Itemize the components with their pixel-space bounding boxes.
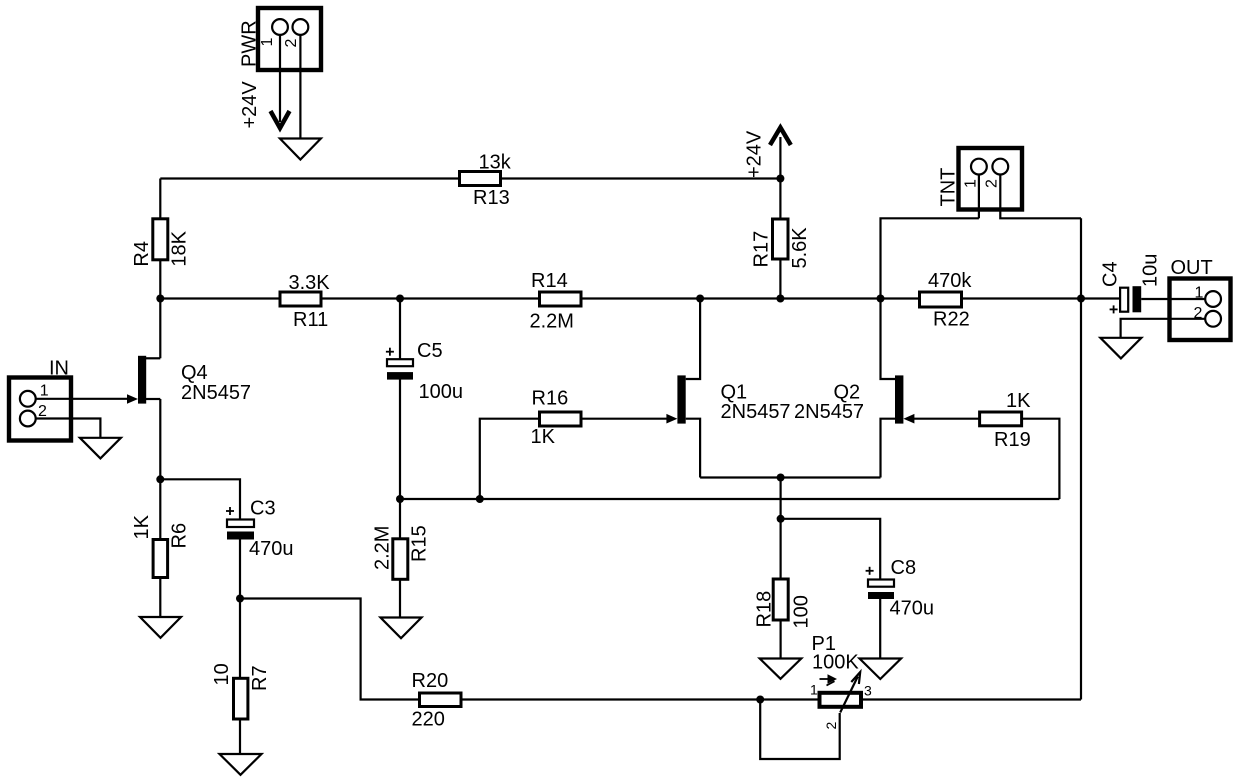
svg-text:2: 2 xyxy=(1194,305,1203,322)
svg-text:R18: R18 xyxy=(754,591,776,628)
wire main bus xyxy=(160,297,1120,299)
node C4 left junction xyxy=(1077,295,1085,303)
wire PWR pin1 xyxy=(279,35,281,122)
wire lower node to R20 xyxy=(240,599,420,700)
node R4 bottom junction xyxy=(156,295,164,303)
connector PWR xyxy=(239,8,322,70)
wire top 13k rail xyxy=(160,177,780,179)
wire +24V arrow to R17 column xyxy=(779,137,781,299)
svg-text:220: 220 xyxy=(412,709,445,731)
svg-text:R6: R6 xyxy=(169,523,191,549)
svg-text:470k: 470k xyxy=(928,270,972,292)
wire TNT pin2 to right rail xyxy=(1000,175,1081,219)
svg-text:470u: 470u xyxy=(890,598,935,620)
wire R19 right leg to feedback xyxy=(1022,419,1060,499)
wire R15 down to ground xyxy=(399,499,401,618)
wire Q2 source xyxy=(881,419,896,478)
wire R4 column vertical xyxy=(159,179,161,359)
svg-text:R4: R4 xyxy=(131,241,153,267)
node C3 bottom junction xyxy=(236,595,244,603)
resistor R16 1K xyxy=(531,388,582,449)
node P1 pin1 junction xyxy=(756,696,764,704)
svg-text:5.6K: 5.6K xyxy=(789,227,811,269)
node 13k/+24V junction xyxy=(776,175,784,183)
svg-text:100: 100 xyxy=(791,595,813,628)
svg-text:2: 2 xyxy=(38,403,47,420)
transistor Q1 2N5457 xyxy=(666,375,790,423)
wire PWR pin2 xyxy=(299,35,301,139)
svg-text:1: 1 xyxy=(259,38,276,47)
svg-text:2N5457: 2N5457 xyxy=(721,401,791,423)
connector IN xyxy=(9,357,71,440)
capacitor C3 470u xyxy=(226,498,294,561)
connector OUT xyxy=(1170,257,1231,340)
label +24V at PWR xyxy=(239,81,261,129)
svg-text:+24V: +24V xyxy=(744,130,766,178)
svg-text:Q4: Q4 xyxy=(181,362,208,384)
wire P1 right to output rail xyxy=(861,698,1081,700)
svg-text:1K: 1K xyxy=(1006,390,1031,412)
node Q1 drain junction xyxy=(696,295,704,303)
wire R16 to Q1 gate xyxy=(581,418,669,420)
svg-text:OUT: OUT xyxy=(1171,257,1213,279)
node C5 bottom junction xyxy=(396,495,404,503)
resistor R22 470k xyxy=(920,270,973,331)
svg-text:2.2M: 2.2M xyxy=(530,311,574,333)
svg-text:+24V: +24V xyxy=(239,81,261,129)
wire IN pin2 to ground xyxy=(36,419,101,438)
wire R20 to P1 xyxy=(461,698,820,700)
capacitor C8 470u xyxy=(866,557,934,620)
svg-text:1: 1 xyxy=(963,179,980,188)
wire C5 branch down xyxy=(399,299,401,360)
wire output right rail xyxy=(1080,218,1082,699)
svg-text:C4: C4 xyxy=(1100,261,1122,287)
ground at IN pin2 xyxy=(80,438,121,459)
wire Q1 source xyxy=(686,419,700,478)
svg-text:470u: 470u xyxy=(249,538,294,560)
ground at OUT pin2 xyxy=(1100,338,1141,359)
wire feedback rail xyxy=(400,498,1059,500)
node Q2 drain junction xyxy=(877,295,885,303)
resistor R20 220 xyxy=(412,670,462,731)
wire R18 column xyxy=(779,519,781,659)
svg-text:13k: 13k xyxy=(479,152,512,174)
resistor R7 10 xyxy=(211,663,271,719)
ground at R7 xyxy=(220,754,262,775)
svg-text:R14: R14 xyxy=(531,270,568,292)
wire TNT pin1 vertical xyxy=(978,175,980,219)
wire Q4 source down to R6 and ground xyxy=(159,399,161,617)
svg-text:R16: R16 xyxy=(532,388,569,410)
wire source bus xyxy=(700,476,880,478)
svg-text:C8: C8 xyxy=(891,557,917,579)
svg-text:PWR: PWR xyxy=(239,20,261,67)
ground at R15 xyxy=(381,618,422,639)
wire IN pin1 to Q4 gate xyxy=(36,398,129,400)
wire to C8 xyxy=(781,519,881,580)
ground at C8 xyxy=(860,659,902,680)
wire Q4 source stub xyxy=(146,398,160,400)
wire Q4 drain stub xyxy=(146,357,160,359)
node R18 top junction xyxy=(777,515,785,523)
transistor Q2 2N5457 xyxy=(794,375,914,423)
transistor Q4 2N5457 xyxy=(127,356,251,404)
svg-text:C5: C5 xyxy=(417,340,443,362)
wire R16 left leg xyxy=(480,419,540,499)
resistor R4 18K xyxy=(131,219,191,267)
svg-text:R19: R19 xyxy=(994,429,1031,451)
resistor R15 2.2M xyxy=(372,525,431,579)
ground at R18 xyxy=(760,659,802,679)
svg-text:2: 2 xyxy=(283,39,300,48)
resistor R17 5.6K xyxy=(751,219,812,269)
wire C8 to ground xyxy=(879,599,881,659)
svg-text:2.2M: 2.2M xyxy=(372,526,394,570)
svg-text:1: 1 xyxy=(40,383,49,400)
svg-text:1K: 1K xyxy=(531,426,556,448)
node R17 bottom junction xyxy=(776,295,784,303)
svg-text:R15: R15 xyxy=(409,525,431,562)
node Q4 source junction xyxy=(156,475,164,483)
ground at PWR pin2 xyxy=(280,139,321,160)
resistor R14 2.2M xyxy=(530,270,582,333)
svg-text:R22: R22 xyxy=(933,309,970,331)
svg-text:10u: 10u xyxy=(1140,254,1162,287)
node C5 top junction xyxy=(396,295,404,303)
svg-text:R11: R11 xyxy=(293,309,328,331)
svg-text:R17: R17 xyxy=(751,231,773,268)
wire Q2 gate to R19 xyxy=(912,418,980,420)
svg-text:1: 1 xyxy=(810,682,818,698)
svg-text:3: 3 xyxy=(864,683,872,699)
svg-text:3.3K: 3.3K xyxy=(289,272,331,294)
wire C5 to feedback node xyxy=(399,380,401,500)
svg-text:R7: R7 xyxy=(249,665,271,691)
wire Q1 drain xyxy=(686,299,700,380)
svg-text:1K: 1K xyxy=(131,514,153,539)
wire C4 to OUT pin1 xyxy=(1141,298,1205,300)
wire R7 column xyxy=(239,599,241,755)
wire C3 to lower node xyxy=(239,540,241,599)
svg-text:2N5457: 2N5457 xyxy=(794,401,864,423)
node R16 leg junction xyxy=(476,495,484,503)
svg-text:TNT: TNT xyxy=(938,168,960,207)
svg-text:18K: 18K xyxy=(169,230,191,266)
svg-text:R13: R13 xyxy=(473,187,510,209)
svg-text:2N5457: 2N5457 xyxy=(181,382,251,404)
svg-text:1: 1 xyxy=(1195,285,1204,302)
wire source junction down xyxy=(779,478,781,519)
potentiometer P1 100K xyxy=(810,633,872,730)
resistor R19 1K xyxy=(980,390,1032,451)
svg-text:R20: R20 xyxy=(412,670,449,692)
ground at R6 xyxy=(140,617,181,638)
resistor R18 100 xyxy=(754,579,813,629)
svg-text:C3: C3 xyxy=(250,498,276,520)
+24V supply arrow up xyxy=(744,128,791,179)
wire Q4 source to C3 xyxy=(160,479,240,519)
svg-text:100u: 100u xyxy=(419,381,464,403)
svg-text:100K: 100K xyxy=(812,652,859,674)
wire Q2 drain and TNT pin1 column xyxy=(881,218,979,379)
resistor R13 13k xyxy=(460,152,512,210)
svg-text:IN: IN xyxy=(49,357,69,379)
+24V supply arrow down at PWR xyxy=(271,111,290,128)
resistor R6 1K xyxy=(131,514,191,577)
capacitor C4 10u xyxy=(1100,254,1162,314)
svg-text:10: 10 xyxy=(211,663,233,685)
wire P1 wiper return loop xyxy=(760,700,840,760)
svg-text:2: 2 xyxy=(823,722,839,730)
svg-text:2: 2 xyxy=(984,179,1001,188)
connector TNT xyxy=(938,148,1023,210)
capacitor C5 100u xyxy=(386,340,463,403)
resistor R11 3.3K xyxy=(280,272,330,331)
wire OUT pin2 to ground xyxy=(1121,319,1206,338)
node source bus junction xyxy=(777,474,785,482)
